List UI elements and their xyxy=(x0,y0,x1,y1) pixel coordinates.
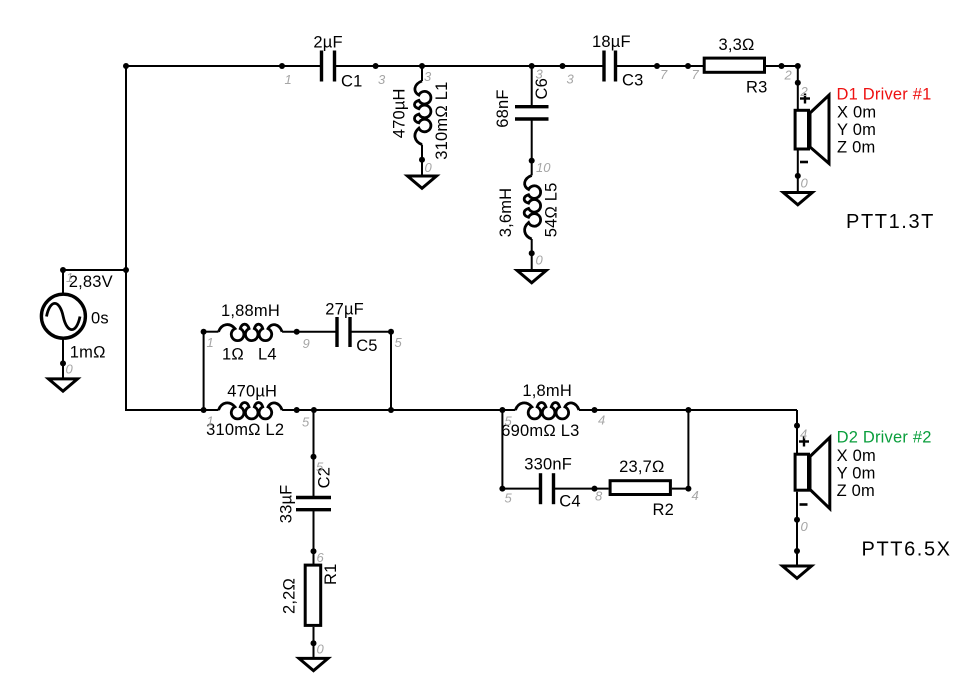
svg-text:23,7Ω: 23,7Ω xyxy=(619,458,664,476)
svg-text:27µF: 27µF xyxy=(325,301,364,319)
node 3 after C6 xyxy=(560,63,566,69)
node 1 on top bus xyxy=(279,63,285,69)
svg-text:3: 3 xyxy=(536,67,544,82)
svg-text:1: 1 xyxy=(285,72,292,87)
node 9 after L4 xyxy=(294,329,300,335)
svg-text:D1 Driver #1: D1 Driver #1 xyxy=(837,86,932,104)
wire: top horizontal bus from left corner to C1 xyxy=(125,65,322,67)
svg-text:0: 0 xyxy=(801,519,809,534)
ground below D2 xyxy=(783,566,812,578)
svg-text:2: 2 xyxy=(800,84,809,99)
wire: D2 wire corner down to speaker xyxy=(796,410,798,453)
wire: left side of L4/L2 parallel loop xyxy=(203,332,205,410)
node 2 at D1 plus xyxy=(795,80,801,86)
svg-text:3: 3 xyxy=(424,69,432,84)
svg-text:Z 0m: Z 0m xyxy=(837,139,875,157)
resistor R3 3,3 Ohm xyxy=(704,58,764,72)
svg-text:2,2Ω: 2,2Ω xyxy=(281,578,299,614)
svg-text:0: 0 xyxy=(801,176,809,191)
svg-text:C1: C1 xyxy=(341,73,363,91)
wire: source top lead xyxy=(62,269,64,294)
ground below L5 xyxy=(517,271,546,283)
svg-text:1Ω: 1Ω xyxy=(222,346,244,364)
wire: C4 to R2 xyxy=(554,488,609,490)
wire: L5 bottom lead to ground xyxy=(531,239,533,270)
svg-text:54Ω L5: 54Ω L5 xyxy=(543,182,561,237)
node 5 at C2 top xyxy=(311,454,317,460)
wire: L4 left lead xyxy=(204,331,219,333)
svg-text:L4: L4 xyxy=(258,346,277,364)
ground below source xyxy=(49,379,78,391)
svg-text:5: 5 xyxy=(505,414,513,429)
wire: lower bus L3 to corner above D2 xyxy=(579,409,797,411)
node 0 at L1 bottom xyxy=(419,157,425,163)
svg-text:33µF: 33µF xyxy=(278,485,296,524)
capacitor C4 330nF xyxy=(541,473,554,504)
node 1 at L2 left xyxy=(201,407,207,413)
wire: L1 top lead xyxy=(421,66,423,81)
wire: L1 bottom lead to ground xyxy=(421,145,423,175)
node 7 at R3 xyxy=(685,63,691,69)
ground below R1 xyxy=(299,658,328,670)
wire: D1 speaker minus lead to ground xyxy=(797,151,799,192)
wire: R2 right lead xyxy=(672,488,689,490)
svg-text:6: 6 xyxy=(317,550,325,565)
wire: right side of L3/C4 loop xyxy=(687,410,689,489)
wire: source bottom lead to ground xyxy=(62,339,64,378)
wire: lower bus from corner to L2 xyxy=(126,409,219,411)
node: bus junction at source xyxy=(123,267,129,273)
node: C5 branch junction on bus xyxy=(388,407,394,413)
svg-text:C3: C3 xyxy=(622,72,644,90)
svg-text:Z 0m: Z 0m xyxy=(837,482,875,500)
svg-text:7: 7 xyxy=(692,67,700,82)
node 0 below L5 xyxy=(529,250,535,256)
node 7 before R3 xyxy=(654,63,660,69)
node: D2 ground pin xyxy=(794,548,800,554)
capacitor C6 68nF (vertical) xyxy=(515,107,549,119)
svg-text:4: 4 xyxy=(692,488,699,503)
speaker D2 xyxy=(795,437,830,509)
node 0 below R1 xyxy=(311,640,317,646)
svg-text:1: 1 xyxy=(207,335,214,350)
node: L1 junction xyxy=(419,63,425,69)
svg-text:310mΩ L2: 310mΩ L2 xyxy=(206,421,284,439)
svg-text:330nF: 330nF xyxy=(524,456,572,474)
svg-text:R2: R2 xyxy=(653,501,675,519)
svg-text:1,8mH: 1,8mH xyxy=(522,382,572,400)
svg-text:2,83V: 2,83V xyxy=(69,273,113,291)
wire: C6 to L5 lead xyxy=(531,121,533,176)
node 4 after R2 xyxy=(685,486,691,492)
svg-text:470µH: 470µH xyxy=(227,383,277,401)
node 5 at C4 left xyxy=(499,486,505,492)
svg-text:R3: R3 xyxy=(746,79,768,97)
svg-text:18µF: 18µF xyxy=(592,33,631,51)
svg-text:8: 8 xyxy=(595,489,603,504)
inductor L1 470uH (vertical) xyxy=(414,81,430,145)
svg-text:1: 1 xyxy=(207,414,214,429)
node 8 between C4 and R2 xyxy=(592,486,598,492)
svg-text:R1: R1 xyxy=(322,564,340,586)
svg-text:5: 5 xyxy=(505,491,513,506)
wire: source top to bus xyxy=(63,269,126,271)
svg-text:0: 0 xyxy=(425,160,433,175)
svg-text:Y 0m: Y 0m xyxy=(837,121,876,139)
svg-text:3,3Ω: 3,3Ω xyxy=(719,36,755,54)
wire: top bus C1 to C3 xyxy=(335,65,605,67)
ground below L1 xyxy=(408,176,437,188)
capacitor C2 33uF (vertical) xyxy=(296,498,331,510)
svg-text:X 0m: X 0m xyxy=(837,104,876,122)
svg-text:4: 4 xyxy=(800,427,807,442)
wire: C5 right lead to node 5 xyxy=(350,331,391,333)
svg-text:3: 3 xyxy=(567,72,575,87)
svg-text:470µH: 470µH xyxy=(391,88,409,138)
svg-text:0: 0 xyxy=(536,253,544,268)
inductor L5 3,6mH (vertical) xyxy=(524,175,540,239)
resistor R1 2,2 Ohm (vertical) xyxy=(305,565,321,625)
svg-text:7: 7 xyxy=(660,67,668,82)
inductor L3 1,8mH xyxy=(515,402,579,418)
wire: C4 left lead xyxy=(502,488,540,490)
wire: lower bus L2 to L3 xyxy=(282,409,515,411)
node 5 at L3 left xyxy=(499,407,505,413)
svg-text:C5: C5 xyxy=(356,337,378,355)
svg-text:3: 3 xyxy=(378,72,386,87)
svg-text:5: 5 xyxy=(302,415,310,430)
node 6 between C2 and R1 xyxy=(311,548,317,554)
wire: right side of L4/C5 loop down to bus xyxy=(390,332,392,410)
wire: top bus R3 to corner above D1 xyxy=(766,65,798,67)
svg-text:PTT6.5X: PTT6.5X xyxy=(862,539,952,561)
svg-text:Y 0m: Y 0m xyxy=(837,465,876,483)
node: C2 branch junction xyxy=(311,407,317,413)
svg-text:0s: 0s xyxy=(91,310,109,328)
node 4 after L3 xyxy=(592,407,598,413)
svg-text:4: 4 xyxy=(598,413,605,428)
wire: top bus C3 to R3 xyxy=(616,65,704,67)
svg-text:0: 0 xyxy=(317,642,325,657)
wire: left vertical bus xyxy=(125,65,127,411)
wire: C2 to R1 lead xyxy=(313,509,315,564)
node 0 below D1 xyxy=(795,173,801,179)
wire: L4 to C5 xyxy=(282,331,337,333)
voltage source V1 2,83V xyxy=(41,294,85,338)
svg-text:2µF: 2µF xyxy=(313,34,342,52)
svg-text:9: 9 xyxy=(303,336,310,351)
inductor L2 470uH xyxy=(219,402,283,418)
node: top-left corner xyxy=(123,63,129,69)
svg-text:68nF: 68nF xyxy=(494,89,512,127)
svg-text:PTT1.3T: PTT1.3T xyxy=(846,211,935,233)
node 10 between C6 and L5 xyxy=(529,158,535,164)
svg-text:D2 Driver #2: D2 Driver #2 xyxy=(837,429,932,447)
inductor L4 1,88mH xyxy=(219,324,283,340)
svg-text:10: 10 xyxy=(536,160,551,175)
node 3 after C1 xyxy=(373,63,379,69)
wire: C6 top lead xyxy=(531,66,533,105)
capacitor C5 27uF xyxy=(337,317,350,347)
wire: R1 bottom lead to ground xyxy=(313,627,315,658)
ground below D1 xyxy=(783,193,812,205)
capacitor C1 2uF xyxy=(322,51,335,82)
svg-text:1mΩ: 1mΩ xyxy=(70,344,106,362)
svg-text:X 0m: X 0m xyxy=(837,447,876,465)
node 1 at L4 left xyxy=(201,329,207,335)
wire: C2 branch top lead xyxy=(313,410,315,498)
svg-text:0: 0 xyxy=(66,362,74,377)
speaker D1 xyxy=(795,94,829,164)
svg-text:C4: C4 xyxy=(559,493,581,511)
node 2 after R3 xyxy=(779,63,785,69)
node: R2 branch junction on bus xyxy=(685,407,691,413)
svg-text:1: 1 xyxy=(66,270,73,285)
svg-text:5: 5 xyxy=(316,460,324,475)
capacitor C3 18uF xyxy=(604,51,616,82)
wire: left side of L3/C4 loop xyxy=(501,410,503,489)
node: source plus xyxy=(60,267,66,273)
node 0 below D2 xyxy=(794,517,800,523)
svg-text:1,88mH: 1,88mH xyxy=(221,302,280,320)
svg-text:3,6mH: 3,6mH xyxy=(497,188,515,238)
svg-text:5: 5 xyxy=(395,335,403,350)
resistor R2 23,7 Ohm xyxy=(610,481,670,495)
wire: D1 wire corner down to speaker xyxy=(797,66,799,109)
svg-text:690mΩ L3: 690mΩ L3 xyxy=(501,422,579,440)
svg-text:310mΩ L1: 310mΩ L1 xyxy=(433,82,451,160)
node 5 after C5 xyxy=(388,329,394,335)
node: C6 junction xyxy=(529,63,535,69)
svg-text:2: 2 xyxy=(784,68,793,83)
node 5 after L2 xyxy=(294,407,300,413)
node: corner above D1 xyxy=(795,63,801,69)
wire: D2 speaker minus lead to ground xyxy=(796,492,798,565)
node 0 below source xyxy=(60,360,66,366)
node 4 at D2 plus xyxy=(794,423,800,429)
